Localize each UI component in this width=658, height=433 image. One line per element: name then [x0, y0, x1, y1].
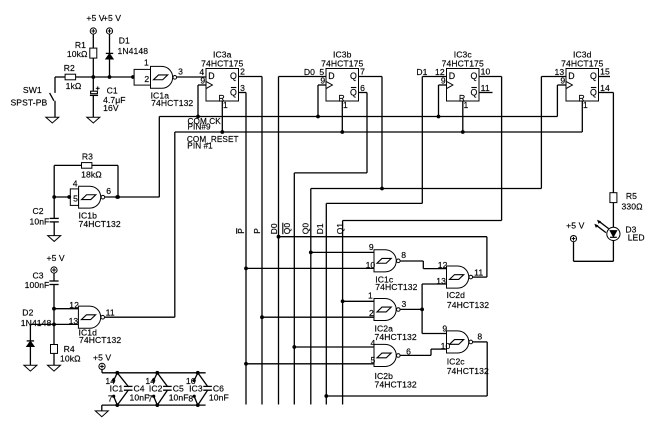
svg-text:1kΩ: 1kΩ — [66, 81, 82, 91]
svg-text:12: 12 — [438, 260, 448, 270]
svg-text:330Ω: 330Ω — [622, 201, 644, 211]
svg-text:1: 1 — [223, 100, 228, 110]
svg-text:SPST-PB: SPST-PB — [11, 98, 48, 108]
svg-text:Q: Q — [470, 87, 477, 97]
svg-text:100nF: 100nF — [25, 280, 50, 290]
svg-text:12: 12 — [69, 300, 79, 310]
svg-text:74HCT132: 74HCT132 — [375, 380, 417, 390]
svg-text:1: 1 — [464, 100, 469, 110]
svg-text:10: 10 — [366, 260, 376, 270]
svg-text:LED: LED — [628, 232, 645, 242]
svg-text:2: 2 — [144, 74, 149, 84]
svg-text:13: 13 — [436, 276, 446, 286]
svg-text:3: 3 — [178, 66, 183, 76]
svg-text:SW1: SW1 — [23, 85, 42, 95]
svg-text:8: 8 — [477, 332, 482, 342]
svg-text:5: 5 — [371, 355, 376, 365]
svg-text:IC3: IC3 — [189, 383, 203, 393]
svg-text:11: 11 — [474, 267, 483, 277]
svg-text:6: 6 — [406, 346, 411, 356]
svg-text:74HCT175: 74HCT175 — [321, 58, 363, 68]
svg-text:2: 2 — [369, 308, 374, 318]
svg-text:Q0: Q0 — [300, 223, 310, 235]
svg-text:D: D — [328, 71, 334, 81]
svg-text:18kΩ: 18kΩ — [81, 170, 102, 180]
svg-text:Q: Q — [590, 71, 597, 81]
svg-text:Q1: Q1 — [335, 223, 345, 235]
svg-text:1: 1 — [583, 100, 588, 110]
svg-text:P: P — [236, 228, 246, 234]
svg-text:5: 5 — [73, 194, 78, 204]
svg-text:2: 2 — [240, 67, 245, 77]
svg-text:10: 10 — [441, 341, 451, 351]
svg-text:P: P — [252, 228, 262, 234]
svg-text:10nF: 10nF — [29, 217, 49, 227]
svg-text:D0: D0 — [269, 223, 279, 234]
svg-text:1: 1 — [144, 57, 149, 67]
svg-text:C1: C1 — [107, 86, 118, 96]
svg-text:10kΩ: 10kΩ — [60, 354, 81, 364]
svg-text:74HCT132: 74HCT132 — [79, 219, 121, 229]
svg-text:74HCT132: 74HCT132 — [447, 300, 489, 310]
svg-text:8: 8 — [188, 394, 193, 404]
svg-text:1N4148: 1N4148 — [21, 318, 52, 328]
svg-text:IC1: IC1 — [110, 383, 124, 393]
svg-text:D: D — [208, 71, 214, 81]
svg-text:1: 1 — [368, 291, 373, 301]
svg-text:10: 10 — [481, 67, 491, 77]
svg-text:11: 11 — [106, 307, 115, 317]
svg-text:7: 7 — [360, 67, 365, 77]
svg-text:PIN#9: PIN#9 — [188, 123, 212, 132]
svg-text:Q0: Q0 — [282, 223, 292, 235]
svg-text:Q: Q — [350, 87, 357, 97]
svg-text:1: 1 — [343, 100, 348, 110]
svg-text:IC2: IC2 — [149, 383, 163, 393]
svg-text:IC2d: IC2d — [447, 290, 466, 300]
svg-text:6: 6 — [106, 186, 111, 196]
svg-text:3: 3 — [402, 299, 407, 309]
svg-text:7: 7 — [148, 394, 153, 404]
svg-text:74HCT132: 74HCT132 — [447, 366, 489, 376]
svg-text:15: 15 — [600, 67, 610, 77]
svg-text:D1: D1 — [416, 67, 427, 77]
svg-text:74HCT132: 74HCT132 — [375, 332, 417, 342]
svg-text:16V: 16V — [103, 103, 119, 113]
svg-text:+5 V: +5 V — [93, 352, 111, 362]
svg-text:R5: R5 — [626, 191, 637, 201]
svg-text:13: 13 — [69, 316, 79, 326]
svg-text:74HCT132: 74HCT132 — [375, 282, 417, 292]
svg-text:1N4148: 1N4148 — [118, 46, 149, 56]
svg-text:10nF: 10nF — [130, 392, 150, 402]
svg-text:74HCT175: 74HCT175 — [561, 58, 603, 68]
svg-text:3: 3 — [240, 83, 245, 93]
svg-text:+5 V: +5 V — [46, 253, 64, 263]
svg-text:10kΩ: 10kΩ — [67, 49, 88, 59]
svg-text:Q: Q — [350, 71, 357, 81]
svg-text:Q: Q — [470, 71, 477, 81]
svg-text:10nF: 10nF — [209, 392, 229, 402]
svg-text:C2: C2 — [32, 206, 43, 216]
svg-text:D: D — [568, 71, 574, 81]
svg-text:7: 7 — [108, 394, 113, 404]
svg-text:8: 8 — [401, 250, 406, 260]
svg-text:9: 9 — [369, 242, 374, 252]
svg-text:11: 11 — [481, 83, 490, 93]
svg-text:D0: D0 — [304, 67, 315, 77]
svg-text:D1: D1 — [119, 36, 130, 46]
svg-text:+5 V: +5 V — [103, 13, 121, 23]
svg-text:74HCT132: 74HCT132 — [151, 98, 193, 108]
svg-text:Q: Q — [230, 87, 237, 97]
svg-text:4: 4 — [371, 338, 376, 348]
svg-text:74HCT175: 74HCT175 — [442, 58, 484, 68]
svg-text:D2: D2 — [22, 308, 33, 318]
svg-text:14: 14 — [600, 83, 610, 93]
svg-text:Q: Q — [590, 87, 597, 97]
svg-text:10nF: 10nF — [169, 392, 189, 402]
svg-text:Q: Q — [230, 71, 237, 81]
svg-text:C3: C3 — [32, 270, 43, 280]
svg-text:9: 9 — [442, 324, 447, 334]
svg-text:+5 V: +5 V — [566, 220, 584, 230]
svg-text:R3: R3 — [82, 151, 93, 161]
svg-text:74HCT175: 74HCT175 — [201, 58, 243, 68]
svg-text:6: 6 — [360, 83, 365, 93]
svg-text:PIN #1: PIN #1 — [187, 141, 213, 150]
svg-text:R2: R2 — [64, 63, 75, 73]
svg-text:4: 4 — [73, 178, 78, 188]
svg-text:D1: D1 — [315, 223, 325, 234]
svg-text:D: D — [449, 71, 455, 81]
svg-text:9: 9 — [200, 76, 205, 86]
svg-text:74HCT132: 74HCT132 — [79, 335, 121, 345]
